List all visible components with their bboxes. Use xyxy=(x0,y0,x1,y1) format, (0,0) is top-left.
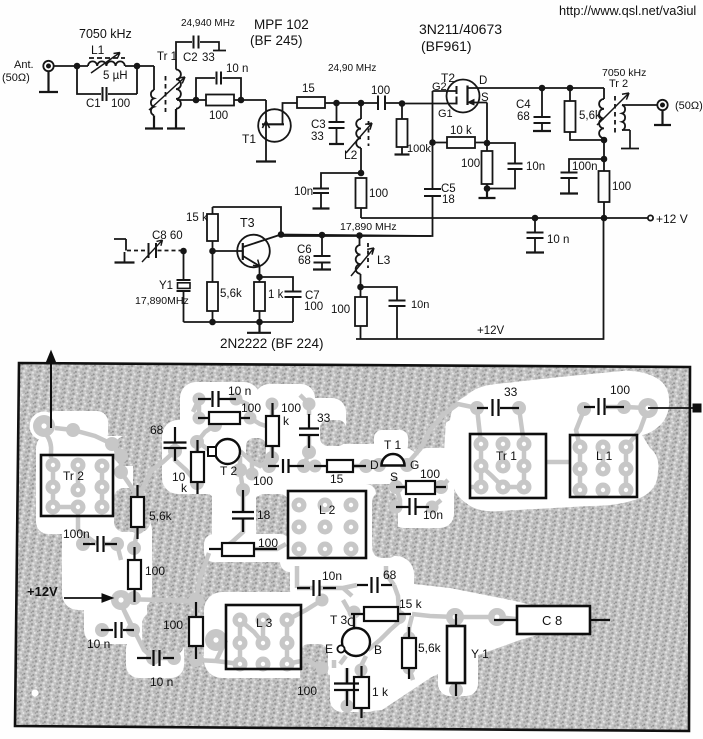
white etch region: L3 area xyxy=(204,592,320,678)
transformer Tr2 arrow xyxy=(597,93,629,125)
capacitor C8 (trimmer) xyxy=(127,250,147,252)
pads 100n row xyxy=(76,537,90,551)
pad big left of L3 xyxy=(205,629,227,651)
pads L2 3x3 xyxy=(292,498,307,513)
pads C8 row xyxy=(446,608,464,626)
svg-text:15 k: 15 k xyxy=(399,597,423,611)
wire (C8 left stub) xyxy=(114,239,126,262)
svg-text:24,940 MHz: 24,940 MHz xyxy=(181,18,235,29)
svg-text:3N211/40673: 3N211/40673 xyxy=(419,21,502,37)
gray island patches xyxy=(114,436,162,466)
svg-text:(50Ω): (50Ω) xyxy=(675,100,703,112)
trace 100 mid bottom xyxy=(196,553,240,664)
resistor 15 xyxy=(297,97,325,108)
svg-text:33: 33 xyxy=(311,131,324,143)
svg-text:5,6k: 5,6k xyxy=(579,110,601,122)
pads 5,6k xyxy=(131,490,145,504)
white etch region: below Tr2 to +12V xyxy=(62,514,152,610)
wire to T2 G1 xyxy=(402,103,457,105)
resistor 5,6k xyxy=(570,88,604,140)
trace Tr1 internal xyxy=(470,444,524,487)
capacitor 10n (below L2) xyxy=(297,580,336,596)
pads misc top-left xyxy=(66,423,80,437)
trace 10k top to T2 xyxy=(193,399,215,451)
svg-text:10n: 10n xyxy=(322,569,342,583)
resistor 100 (L2 feed) xyxy=(356,178,367,208)
wire (osc bottom) xyxy=(184,321,294,323)
trace 68/10k cluster xyxy=(138,442,197,497)
svg-text:L 1: L 1 xyxy=(596,449,613,463)
white etch region: bottom 10n xyxy=(126,636,184,678)
wire (right vertical +12V) xyxy=(356,218,604,339)
svg-text:+12V: +12V xyxy=(27,584,58,599)
trace 68 to 15k xyxy=(343,566,399,614)
capacitor 100 (coupling) xyxy=(361,102,402,104)
resistor 15k xyxy=(364,607,398,621)
trace arrow pad down xyxy=(46,434,51,458)
resistor 100k xyxy=(401,104,403,155)
trace 5,6k / Y1 xyxy=(409,616,456,694)
transistor T1 xyxy=(258,109,291,142)
svg-text:18: 18 xyxy=(257,508,271,522)
capacitor C5 xyxy=(281,143,433,237)
svg-text:(BF961): (BF961) xyxy=(421,38,472,54)
svg-text:S: S xyxy=(481,92,489,104)
svg-text:T1: T1 xyxy=(242,132,256,146)
capacitor C6 xyxy=(321,235,323,269)
svg-text:100: 100 xyxy=(369,188,388,200)
pads 10n bottom xyxy=(146,651,160,665)
svg-text:100n: 100n xyxy=(572,161,598,173)
transformer Tr1 (box) xyxy=(470,434,546,498)
transformer Tr1 primary xyxy=(151,90,154,115)
svg-text:17,890 MHz: 17,890 MHz xyxy=(340,221,397,233)
resistor 10k xyxy=(191,452,204,482)
capacitor 68 xyxy=(164,427,187,461)
capacitor 100n xyxy=(569,159,604,193)
transformer Tr2 (box) xyxy=(41,455,113,516)
transformer Tr1 arrow xyxy=(149,77,185,110)
svg-text:100: 100 xyxy=(420,467,440,481)
svg-text:Y 1: Y 1 xyxy=(471,647,489,661)
resistor 100 (gate) xyxy=(206,95,234,106)
svg-text:10n: 10n xyxy=(411,299,429,311)
svg-text:http://www.qsl.net/va3iul: http://www.qsl.net/va3iul xyxy=(559,3,696,18)
ground (antenna) xyxy=(39,71,58,92)
capacitor 10n (gate) xyxy=(196,78,241,100)
svg-text:100: 100 xyxy=(258,536,278,550)
inductor L2 (box) xyxy=(288,491,366,558)
trace Tr2 bottom to 100n xyxy=(78,507,121,560)
capacitor 10n (osc) xyxy=(361,287,398,339)
pads L1 3x3 xyxy=(573,440,588,455)
pads Tr1 3x3 xyxy=(474,437,489,452)
svg-text:S: S xyxy=(390,470,398,484)
node (Tr2 bottom) xyxy=(602,138,607,143)
svg-text:C 8: C 8 xyxy=(542,613,562,628)
svg-text:G1: G1 xyxy=(438,108,453,120)
wire (15k top to collector) xyxy=(213,207,282,235)
svg-text:C: C xyxy=(347,615,356,629)
capacitor 10n (rail decoupling) xyxy=(534,218,536,252)
resistor 100 (T2 source) xyxy=(486,143,488,189)
inductor L1 xyxy=(88,61,125,66)
capacitor 33 (top right) xyxy=(477,399,519,416)
svg-text:15: 15 xyxy=(330,472,344,486)
transistor T3 xyxy=(342,628,370,656)
white etch region: right blob (Tr1/L1) xyxy=(436,371,669,511)
transistor T2 (dual-gate MOSFET) xyxy=(447,80,480,113)
svg-text:Tr 2: Tr 2 xyxy=(609,78,628,90)
svg-text:10 n: 10 n xyxy=(150,675,173,689)
capacitor C2 xyxy=(194,36,199,49)
resistor 100 (osc) xyxy=(360,287,362,339)
transformer Tr1 core xyxy=(165,76,167,112)
svg-text:100: 100 xyxy=(209,110,228,122)
antenna connector J1 xyxy=(43,61,53,71)
white etch region: L2 area xyxy=(280,484,376,572)
svg-text:100k: 100k xyxy=(407,143,431,155)
trace T1 S to 10n xyxy=(396,480,448,509)
node (drain rail) xyxy=(540,86,545,91)
svg-text:33: 33 xyxy=(202,52,215,64)
ground (T2 source R) xyxy=(479,189,496,199)
svg-text:L2: L2 xyxy=(344,148,358,162)
ground (T1 source) xyxy=(256,160,276,162)
white etch region: Y1 column xyxy=(438,604,478,696)
capacitor C1 xyxy=(77,66,137,94)
capacitor 100 (mid) xyxy=(268,459,304,473)
resistor 100 (T1 source) xyxy=(406,481,435,494)
capacitor C4 xyxy=(541,88,543,131)
svg-text:T 3: T 3 xyxy=(330,613,347,627)
trace 18 cap xyxy=(222,491,286,549)
pads 33 xyxy=(303,398,316,411)
wire 17,890MHz line xyxy=(281,235,431,237)
trace right blob top xyxy=(421,404,524,448)
pad (antenna arrow) xyxy=(33,415,55,437)
svg-text:10 n: 10 n xyxy=(87,637,110,651)
pads 100/10n right xyxy=(390,501,403,514)
svg-text:+12V: +12V xyxy=(477,325,505,337)
trace arrow pad right xyxy=(55,428,112,444)
pads T3 area xyxy=(348,606,361,619)
resistor 100 (mid bottom) xyxy=(189,617,203,646)
white etch region: arrow keyhole xyxy=(30,412,59,441)
svg-text:5 µH: 5 µH xyxy=(103,70,128,82)
trace Tr2 to 5,6k xyxy=(121,472,138,497)
svg-text:Ant.: Ant. xyxy=(14,59,34,71)
svg-text:D: D xyxy=(479,75,487,87)
svg-text:100: 100 xyxy=(297,684,317,698)
capacitor 33 (top mid) xyxy=(299,414,319,448)
svg-text:100: 100 xyxy=(304,301,323,313)
pads 100 cap mid xyxy=(262,459,276,473)
svg-text:+12 V: +12 V xyxy=(656,212,688,226)
wire (Tr1 to C2) xyxy=(176,42,192,70)
node B (L1 right) xyxy=(135,64,140,69)
svg-text:10 n: 10 n xyxy=(547,234,569,246)
capacitor C7 xyxy=(260,277,294,322)
pads L3 3x3 xyxy=(233,613,248,628)
svg-text:100: 100 xyxy=(371,85,390,97)
capacitor 10n (bottom) xyxy=(137,650,174,666)
capacitor 10n (left) xyxy=(101,622,134,638)
pads 10n/100 top xyxy=(193,393,206,406)
pad holes xyxy=(41,405,650,666)
pads 100 cap right / output xyxy=(577,402,591,416)
resistor 10k xyxy=(433,142,488,144)
svg-text:L3: L3 xyxy=(377,253,391,267)
trace L1 top to 100 cap xyxy=(576,407,648,447)
trace 15k right to pads to C8 xyxy=(412,614,516,619)
wire xyxy=(54,65,88,67)
white etch region: T1 source cluster xyxy=(390,456,454,528)
capacitor 100 (bottom) xyxy=(334,668,359,706)
svg-text:100: 100 xyxy=(111,98,130,110)
svg-text:E: E xyxy=(325,642,333,656)
resistor 100k xyxy=(266,416,279,446)
transformer Tr2 primary xyxy=(603,88,605,99)
svg-text:100n: 100n xyxy=(63,527,90,541)
svg-text:15 k: 15 k xyxy=(186,212,208,224)
svg-text:10 n: 10 n xyxy=(228,384,251,398)
svg-text:Tr 1: Tr 1 xyxy=(496,449,517,463)
output connector J2 xyxy=(657,100,667,110)
resistor 5,6k (T3 base) xyxy=(212,251,214,322)
inductor L2 xyxy=(360,103,362,119)
svg-text:(BF 245): (BF 245) xyxy=(250,33,303,48)
svg-text:G: G xyxy=(410,458,419,472)
svg-text:68: 68 xyxy=(517,111,530,123)
resistor 100 (left) xyxy=(128,560,141,589)
svg-text:1 k: 1 k xyxy=(268,289,284,301)
svg-text:100: 100 xyxy=(610,383,630,397)
pads 100 mid xyxy=(188,593,204,609)
svg-text:L 2: L 2 xyxy=(319,503,336,517)
svg-text:10n: 10n xyxy=(423,508,443,522)
node A (L1 left) xyxy=(75,64,80,69)
svg-text:(50Ω): (50Ω) xyxy=(2,72,30,84)
transistor T1 (dome) xyxy=(382,454,405,466)
trace L2 bottom to 10n/68 xyxy=(297,566,357,596)
svg-text:24,90 MHz: 24,90 MHz xyxy=(328,63,376,74)
pads T2 xyxy=(233,463,247,477)
trace Tr1 to L1 xyxy=(546,460,570,465)
svg-text:L1: L1 xyxy=(91,43,105,57)
output line and terminal xyxy=(648,407,694,409)
svg-text:100: 100 xyxy=(612,181,631,193)
capacitor 10n (T2 source) xyxy=(487,143,515,189)
resistor 1k xyxy=(259,277,261,322)
resistor 100 (Tr2 feed) xyxy=(603,159,605,218)
transformer Tr2 secondary xyxy=(622,105,625,130)
svg-text:100: 100 xyxy=(281,401,301,415)
trace 33 bottom to 100cap/15 xyxy=(304,465,379,466)
transistor T3 xyxy=(237,235,270,268)
capacitor 18 xyxy=(232,490,254,532)
trace L3 right to T3 xyxy=(287,600,322,668)
svg-text:1 k: 1 k xyxy=(372,685,389,699)
svg-text:7050 kHz: 7050 kHz xyxy=(79,27,132,41)
svg-text:68: 68 xyxy=(383,568,397,582)
svg-text:k: k xyxy=(181,481,188,495)
transformer Tr2 core xyxy=(614,96,616,133)
trace +12V area xyxy=(121,599,196,658)
trace L1 internal xyxy=(580,447,626,490)
trace T3 xyxy=(340,614,399,666)
capacitor 68 (below L2) xyxy=(357,577,392,593)
svg-text:C2: C2 xyxy=(183,52,198,64)
svg-text:100: 100 xyxy=(253,474,273,488)
svg-text:Tr 2: Tr 2 xyxy=(63,469,84,483)
trace top cluster: 10n/100 xyxy=(199,399,272,428)
white etch region: Tr2 area xyxy=(36,436,133,534)
wire xyxy=(125,66,154,90)
pads 68/10k cluster xyxy=(168,444,182,458)
svg-text:C8 60: C8 60 xyxy=(152,230,183,242)
svg-text:MPF 102: MPF 102 xyxy=(254,17,309,32)
svg-text:33: 33 xyxy=(504,385,518,399)
transistor T2 xyxy=(215,439,240,464)
capacitor 10n (T1 source) xyxy=(396,498,429,515)
svg-text:T3: T3 xyxy=(240,216,255,230)
svg-text:k: k xyxy=(283,414,290,428)
white etch region: C8 wedge xyxy=(344,582,588,712)
svg-text:68: 68 xyxy=(298,255,311,267)
svg-text:2N2222 (BF 224): 2N2222 (BF 224) xyxy=(220,336,324,351)
resistor 100 (below 18) xyxy=(222,543,254,556)
crystal Y1 xyxy=(183,251,185,322)
svg-text:100: 100 xyxy=(145,564,165,578)
resistor 5,6k (left) xyxy=(131,497,144,527)
capacitor C8 (box) xyxy=(517,606,590,634)
svg-text:T 2: T 2 xyxy=(220,464,237,478)
+12V arrow xyxy=(64,597,104,599)
svg-text:5,6k: 5,6k xyxy=(418,641,442,655)
white etch region: top cluster xyxy=(180,382,260,444)
transformer Tr1 secondary xyxy=(176,70,181,109)
pads Tr2 3x3 xyxy=(46,458,61,473)
+12V rail (top) xyxy=(361,217,648,219)
svg-text:B: B xyxy=(374,643,382,657)
svg-text:10n: 10n xyxy=(294,186,313,198)
trace L3 internal xyxy=(240,620,287,664)
svg-text:T 1: T 1 xyxy=(384,438,401,452)
svg-text:10n: 10n xyxy=(526,161,545,173)
svg-text:C1: C1 xyxy=(86,98,101,110)
svg-text:18: 18 xyxy=(442,194,455,206)
pads T1 xyxy=(372,458,386,472)
svg-text:5,6k: 5,6k xyxy=(149,509,173,523)
antenna input arrow xyxy=(50,360,52,428)
white etch region: below L2 xyxy=(290,556,402,604)
svg-text:D: D xyxy=(370,458,379,472)
pads 15 xyxy=(309,460,322,473)
svg-text:15: 15 xyxy=(302,83,315,95)
ground (osc) xyxy=(247,322,271,333)
crystal Y1 xyxy=(447,626,465,683)
resistor 100 (top) xyxy=(209,412,240,424)
white etch region: 15/T1 channel xyxy=(304,444,462,484)
svg-text:33: 33 xyxy=(317,411,331,425)
capacitor 10n (L2) xyxy=(321,173,361,208)
trace 1k/100 bottom xyxy=(334,660,361,716)
resistor 5,6k (right) xyxy=(402,638,416,668)
node T3 collector xyxy=(279,232,284,237)
trace Tr2 internal xyxy=(53,465,102,507)
pads 10n left xyxy=(95,623,109,637)
svg-text:100: 100 xyxy=(461,158,480,170)
trace Tr2 right side xyxy=(112,444,121,472)
capacitor 100n xyxy=(83,536,117,552)
svg-text:68: 68 xyxy=(150,423,164,437)
wire (Tr1 tap to T1 gate) xyxy=(177,99,262,101)
wire xyxy=(337,102,362,104)
capacitor 100 (top right) xyxy=(584,398,624,415)
trace T2 area xyxy=(240,451,252,490)
svg-text:100: 100 xyxy=(163,618,183,632)
resistor 15k xyxy=(212,207,214,251)
capacitor C3 xyxy=(336,103,338,143)
svg-text:100: 100 xyxy=(331,304,350,316)
svg-text:5,6k: 5,6k xyxy=(220,288,242,300)
svg-text:10 n: 10 n xyxy=(226,63,248,75)
trace 100k bottom to T2 right xyxy=(252,446,272,466)
svg-text:Tr 1: Tr 1 xyxy=(157,51,177,63)
svg-text:Y1: Y1 xyxy=(159,280,173,292)
svg-text:100: 100 xyxy=(241,401,261,415)
board xyxy=(15,363,690,731)
inductor L3 (box) xyxy=(226,605,301,669)
trace 33 top xyxy=(300,395,309,466)
resistor 15 xyxy=(327,460,353,472)
white etch region: T3 cluster xyxy=(318,556,414,676)
svg-text:G2: G2 xyxy=(432,81,447,93)
trace T1 xyxy=(395,448,421,487)
inductor L3 xyxy=(359,236,361,246)
resistor 1k xyxy=(354,677,369,708)
pads 33 top right xyxy=(470,401,484,415)
capacitor 10n (top) xyxy=(198,391,236,407)
pads 100 left xyxy=(127,541,141,555)
svg-text:L 3: L 3 xyxy=(256,616,273,630)
trace 5,6k bottom chain xyxy=(121,527,138,599)
inductor L1 (box) xyxy=(570,435,637,497)
svg-text:17,890MHz: 17,890MHz xyxy=(135,295,189,307)
svg-text:C3: C3 xyxy=(311,119,326,131)
pad +12V xyxy=(111,590,131,610)
svg-text:10 k: 10 k xyxy=(450,125,472,137)
svg-text:C4: C4 xyxy=(516,99,531,111)
